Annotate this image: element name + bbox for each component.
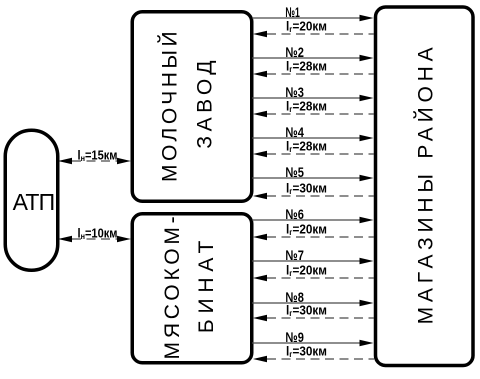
svg-text:БИНАТ: БИНАТ: [195, 235, 218, 333]
svg-text:lг=30км: lг=30км: [286, 181, 327, 197]
svg-text:lг=20км: lг=20км: [286, 222, 327, 238]
svg-text:lг=28км: lг=28км: [286, 139, 327, 155]
svg-text:МАГАЗИНЫ РАЙОНА: МАГАЗИНЫ РАЙОНА: [414, 43, 438, 325]
svg-text:lг=30км: lг=30км: [286, 303, 327, 319]
svg-text:lг=28км: lг=28км: [286, 59, 327, 75]
svg-text:МОЛОЧНЫЙ: МОЛОЧНЫЙ: [158, 28, 182, 182]
svg-text:АТП: АТП: [13, 189, 55, 215]
svg-text:lг=20км: lг=20км: [286, 263, 327, 279]
svg-text:lг=30км: lг=30км: [286, 344, 327, 360]
svg-text:ЗАВОД: ЗАВОД: [194, 56, 217, 149]
svg-text:lг=28км: lг=28км: [286, 99, 327, 115]
svg-text:МЯСОКОМ-: МЯСОКОМ-: [161, 213, 184, 360]
svg-text:lг=20км: lг=20км: [286, 19, 327, 35]
